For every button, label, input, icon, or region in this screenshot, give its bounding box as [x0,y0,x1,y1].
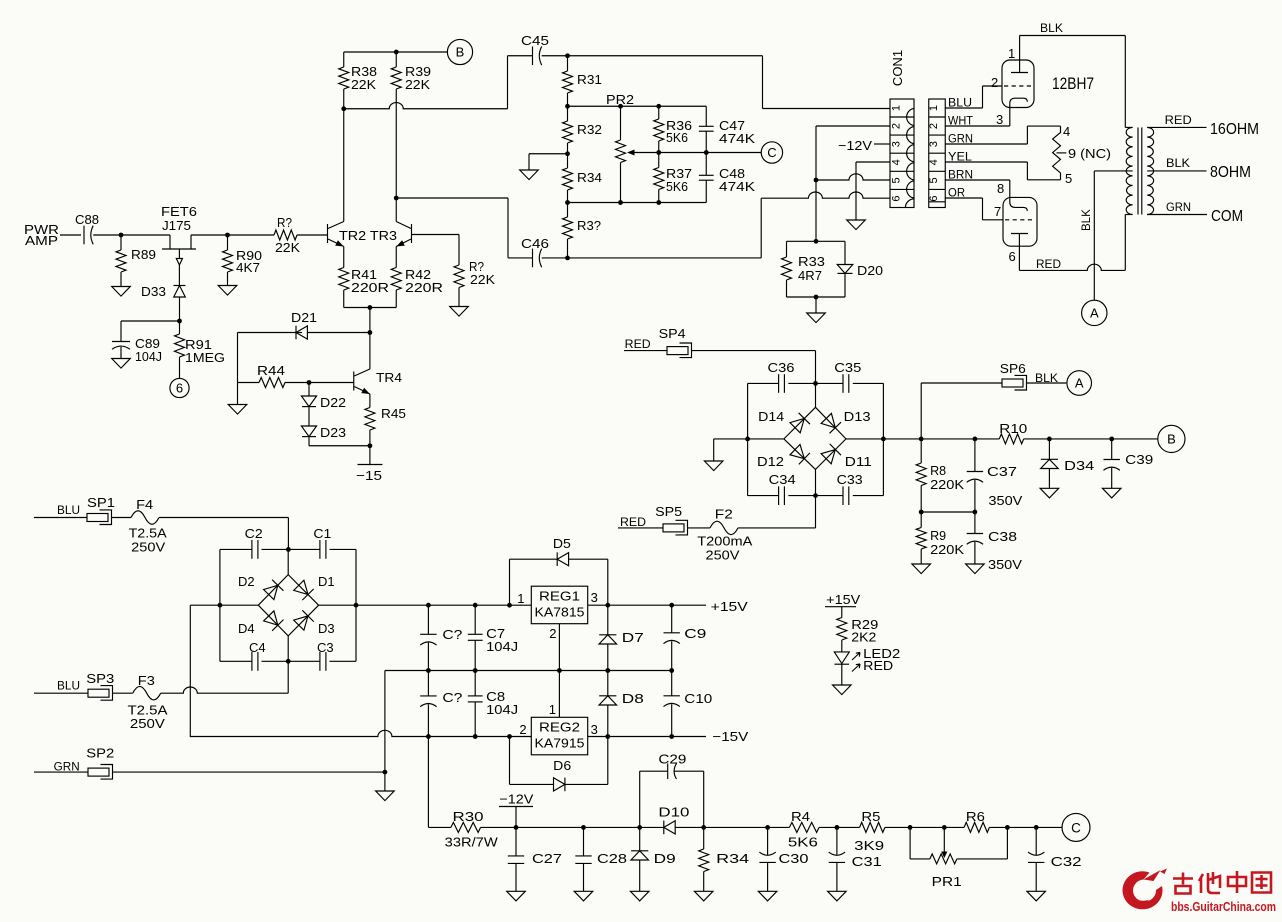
wire [819,826,860,828]
connector CON1 left housing [890,99,914,208]
wire pin5 feed [816,174,890,180]
svg-text:+15V: +15V [826,592,860,607]
wire 8OHM tap BLK [1147,170,1206,172]
wire to ground [714,438,748,440]
fuse F4 T2.5A 250V [112,517,132,519]
connector CON1 right header [929,99,946,208]
wire 16OHM tap RED [1147,126,1206,128]
ground [218,286,237,296]
node junction [565,151,570,156]
wire top rail [542,55,763,57]
transistor TR2 [327,224,329,243]
svg-text:3: 3 [996,112,1003,127]
capacitor C28 [583,827,585,856]
svg-text:5: 5 [891,177,903,183]
wire bridge1 top rail [220,548,252,550]
diode D10 [663,821,665,835]
diode D9 [639,827,641,850]
wire ground rail right [559,670,671,672]
ground [228,405,247,415]
wire bridge1 minus out [190,604,220,606]
svg-text:6: 6 [176,381,183,396]
svg-text:1MEG: 1MEG [185,350,225,365]
svg-text:3K9: 3K9 [854,838,884,853]
svg-text:−12V: −12V [499,792,533,807]
svg-text:22K: 22K [470,272,495,287]
wire R8 R9 junction [921,511,975,513]
wire pin2 riser [816,125,890,127]
diode D20 [844,241,846,264]
svg-text:3: 3 [891,141,903,147]
svg-text:D7: D7 [622,630,644,645]
capacitor C7 104J [474,605,476,634]
ground [507,891,526,901]
transistor TR4 [353,372,355,391]
svg-text:+15V: +15V [711,599,748,614]
resistor R29 2K2 [841,607,843,618]
svg-text:104J: 104J [486,639,518,654]
svg-text:9 (NC): 9 (NC) [1068,146,1111,161]
svg-text:TR4: TR4 [376,370,402,385]
svg-text:A: A [1090,306,1099,321]
svg-text:R?: R? [277,215,292,230]
capacitor C? lower [427,671,429,696]
transistor TR3 [411,224,413,243]
svg-text:SP4: SP4 [659,326,686,341]
wire [237,333,239,405]
svg-text:F3: F3 [138,673,155,688]
ground [694,891,713,901]
svg-text:C34: C34 [769,472,796,487]
svg-text:R9: R9 [930,528,946,543]
svg-text:COM: COM [1211,208,1243,225]
svg-text:D3: D3 [318,621,335,636]
svg-text:SP3: SP3 [86,671,114,686]
node junction [814,239,819,244]
svg-text:8: 8 [997,181,1004,196]
resistor R41 220R [343,247,345,268]
transformer T1 primary winding [1124,36,1126,128]
capacitor C45 [532,46,534,65]
svg-text:C10: C10 [684,691,712,706]
wire divider rail upper [568,105,707,107]
svg-text:12BH7: 12BH7 [1052,75,1094,93]
svg-text:16OHM: 16OHM [1210,121,1259,138]
resistor R5 3K9 [860,822,885,832]
svg-text:−12V: −12V [838,138,872,153]
resistor R? 22K horizontal [274,230,297,240]
resistor R36 5K6 [658,106,660,119]
capacitor C37 350V [974,439,976,472]
svg-text:CON1: CON1 [890,50,905,86]
svg-text:D10: D10 [658,805,689,820]
svg-text:C30: C30 [779,851,809,866]
svg-text:22K: 22K [405,77,430,92]
svg-text:2: 2 [928,123,940,129]
svg-text:R3?: R3? [577,218,601,233]
wire [704,826,790,828]
wire REG1 pin2 to ground rail [558,624,560,718]
wire emitter rail [344,307,397,309]
svg-text:C28: C28 [597,851,627,866]
svg-text:D2: D2 [238,574,255,589]
wire B feed rail [344,103,508,109]
wire bridge box sides [747,383,749,495]
svg-text:1: 1 [549,702,556,717]
svg-text:C2: C2 [245,526,263,541]
svg-text:C46: C46 [521,236,549,251]
wire plus rail to REG1 [356,604,531,606]
capacitor C38 350V [974,512,976,534]
svg-text:R10: R10 [999,421,1027,436]
svg-text:D21: D21 [291,310,317,325]
svg-text:22K: 22K [351,77,376,92]
ground [112,359,131,369]
capacitor C47 474K [705,106,707,126]
resistor R9 220K [920,512,922,528]
svg-text:D33: D33 [141,284,166,299]
svg-text:BLU: BLU [57,681,80,693]
svg-text:BLK: BLK [1166,158,1190,170]
svg-text:C29: C29 [658,752,686,767]
wire TR4 base [309,382,354,384]
resistor R37 5K6 [658,153,660,168]
resistor R45 [369,394,371,408]
svg-text:C1: C1 [313,526,331,541]
capacitor C39 [1111,439,1113,460]
wire C46 feed [396,197,508,199]
rectifier diamond wires [815,383,817,407]
svg-text:3: 3 [928,141,940,147]
svg-text:AMP: AMP [25,233,58,248]
wire TR4 collector [369,333,371,370]
svg-text:C35: C35 [834,360,861,375]
capacitor C89 104J [121,320,180,322]
resistor R8 220K [920,439,922,463]
svg-text:1: 1 [1008,46,1015,61]
svg-text:4: 4 [1063,124,1070,139]
svg-text:bbs.GuitarChina.com: bbs.GuitarChina.com [1171,900,1276,914]
power -15 [369,446,371,465]
wire WHT row [945,125,1010,127]
svg-text:R8: R8 [930,463,946,478]
svg-text:C: C [767,145,776,160]
wire right drop to pin1 [762,56,764,109]
wire [159,517,288,519]
svg-text:350V: 350V [988,557,1022,572]
svg-text:C9: C9 [684,626,706,641]
diode D3 [294,616,308,630]
svg-text:RED: RED [1036,259,1061,271]
resistor R90 4K7 [227,235,229,250]
node A [1067,371,1092,396]
resistor R42 220R [395,247,397,268]
ground [847,220,866,230]
capacitor C31 [836,827,838,855]
wire REG2 output -15V [588,736,706,738]
wire TR3 base [412,234,460,236]
svg-text:A: A [1075,376,1084,391]
ground [574,891,593,901]
svg-text:R45: R45 [381,406,406,421]
svg-text:−15V: −15V [712,729,748,744]
wire R33 box bottom [787,296,846,298]
svg-text:3: 3 [591,722,598,737]
svg-text:RED: RED [620,517,646,529]
wire node B rail top [344,51,448,53]
svg-text:D8: D8 [622,691,644,706]
svg-text:2: 2 [891,123,903,129]
wire -V drop to R30 [427,737,429,828]
ground [704,461,723,471]
svg-text:D34: D34 [1064,458,1094,473]
ground [966,564,985,574]
svg-text:4R7: 4R7 [798,268,822,283]
resistor R3? [567,203,569,218]
diode D4 [264,611,278,625]
svg-text:350V: 350V [988,493,1022,508]
svg-text:33R/7W: 33R/7W [445,835,499,850]
svg-text:R32: R32 [577,122,602,137]
svg-text:R33: R33 [798,254,825,269]
transformer T1 core [1137,127,1139,214]
wire TR2 collector rail [343,109,345,222]
svg-text:GRN: GRN [1166,202,1191,214]
wire rail [309,445,370,447]
diode D1 [294,580,308,594]
wire primary centre tap BLK [1094,170,1132,172]
capacitor C32 [1035,827,1037,855]
svg-text:D14: D14 [758,409,784,424]
resistor R44 [238,382,260,384]
svg-text:−15: −15 [356,468,382,483]
resistor R31 [567,56,569,71]
ground [912,564,931,574]
ground [1102,488,1121,498]
tube 12BH7 upper triode [1002,60,1034,108]
ground [833,685,852,695]
svg-text:250V: 250V [131,540,165,555]
node junction [813,381,818,386]
svg-text:SP2: SP2 [86,746,114,761]
svg-text:D4: D4 [238,621,255,636]
svg-text:7: 7 [994,204,1001,219]
svg-text:J175: J175 [162,218,191,233]
svg-text:B: B [456,45,465,60]
wire [93,234,170,236]
wire bridge1 ac bottom [287,661,289,693]
svg-text:3: 3 [591,590,598,605]
svg-text:C38: C38 [988,529,1017,544]
wire divider rail lower [568,202,707,204]
svg-text:2: 2 [549,626,556,641]
diode D22 [308,383,310,397]
transformer T1 secondary winding [1147,127,1153,214]
resistor R89 [120,235,122,250]
diode D12 [790,445,804,459]
capacitor C8 104J [474,671,476,696]
svg-text:C4: C4 [249,640,266,655]
svg-text:C?: C? [442,690,462,705]
node junction [701,825,706,830]
ground [828,891,847,901]
wire B+ rail [883,438,999,440]
svg-text:8OHM: 8OHM [1210,164,1251,181]
svg-text:D13: D13 [844,409,871,424]
tube 12BH7 lower triode [1003,197,1037,246]
svg-text:474K: 474K [719,179,755,194]
svg-text:R31: R31 [577,72,602,87]
LED LED2 RED [834,652,849,664]
capacitor C? upper [427,605,429,634]
svg-text:C39: C39 [1125,452,1153,467]
capacitor C46 [532,249,534,268]
svg-text:1: 1 [928,105,940,111]
svg-text:220R: 220R [351,280,389,295]
svg-text:F4: F4 [136,497,153,512]
capacitor C29 loop [639,771,641,827]
wire R33 box top [787,240,846,242]
diode D6 loop [509,737,511,785]
node junction [177,319,182,324]
ground [520,170,539,180]
svg-text:R5: R5 [861,809,880,824]
svg-text:KA7815: KA7815 [535,605,585,620]
node junction [565,104,570,109]
ground [1027,891,1046,901]
diode D8 [607,671,609,696]
wire minus rail to regulators [190,730,531,736]
svg-text:2K2: 2K2 [851,630,876,645]
svg-text:KA7915: KA7915 [535,736,585,751]
svg-text:RED: RED [1165,115,1192,127]
regulator REG1 KA7815 [531,586,587,624]
wire with hop [161,687,289,693]
svg-text:RED: RED [625,339,651,351]
svg-text:BLK: BLK [1035,373,1058,385]
svg-text:D9: D9 [654,851,676,866]
node C [1062,813,1090,841]
svg-text:474K: 474K [719,131,755,146]
svg-text:C?: C? [442,627,462,642]
wire COM tap GRN [1147,214,1207,216]
capacitor C48 474K [705,153,707,176]
diode D14 [790,419,804,433]
svg-text:C: C [1071,820,1081,835]
ground [112,287,131,297]
capacitor C30 [767,827,769,855]
ground [384,772,386,791]
svg-text:R6: R6 [966,809,985,824]
wire lower rail to connector riser [542,257,762,259]
svg-text:22K: 22K [275,240,300,255]
node junction D21 [368,330,373,335]
wire PR2 wiper rail [634,152,761,154]
svg-text:BLK: BLK [1040,23,1063,35]
ground [450,307,469,317]
wire [989,826,1062,828]
svg-text:FET6: FET6 [161,204,197,219]
svg-text:220K: 220K [930,542,964,557]
svg-text:250V: 250V [130,716,165,731]
svg-text:R4: R4 [791,809,810,824]
wire -12V dash [874,143,890,145]
resistor R6 [964,822,989,832]
svg-text:BLU: BLU [57,505,80,517]
node B [447,39,472,64]
svg-text:6: 6 [1009,249,1016,264]
wire ground stub [529,153,568,155]
wire bridge1 bottom rail [220,660,252,662]
svg-text:6: 6 [891,195,903,201]
wire [738,527,816,529]
svg-text:D6: D6 [553,758,571,773]
svg-text:REG1: REG1 [539,589,580,604]
svg-text:104J: 104J [135,349,162,364]
wire C45 left leg [507,56,509,109]
wire [191,234,274,236]
svg-text:C27: C27 [532,851,562,866]
capacitor C88 [83,226,85,245]
node junction [565,200,570,205]
ground [630,891,649,901]
svg-text:C32: C32 [1051,854,1082,869]
svg-text:C45: C45 [521,33,549,48]
svg-text:C88: C88 [75,212,99,227]
svg-text:D1: D1 [318,574,335,589]
svg-text:4K7: 4K7 [236,260,260,275]
node 6 terminal [170,378,189,397]
wire bridge1 box sides [219,549,221,661]
svg-text:R34: R34 [716,851,749,866]
svg-text:BLK: BLK [1081,209,1093,231]
svg-text:5: 5 [1065,171,1072,186]
ground [807,313,826,323]
svg-text:5K6: 5K6 [666,130,688,145]
svg-text:SP6: SP6 [1000,361,1026,376]
resistor R? 22K right [458,235,460,266]
wire bottom rail [481,826,664,828]
resistor R34 [567,154,569,168]
svg-text:104J: 104J [486,702,518,717]
svg-text:D12: D12 [757,454,784,469]
svg-text:4: 4 [891,159,903,165]
svg-text:5: 5 [928,177,940,183]
svg-text:D11: D11 [845,454,872,469]
node A centre tap [1082,300,1107,325]
svg-text:SP1: SP1 [87,495,115,510]
diode D23 [308,407,310,426]
svg-text:B: B [1167,432,1176,447]
svg-text:RED: RED [863,658,893,673]
wire RED plate lead [1019,264,1125,270]
potentiometer PR1 [909,827,911,859]
svg-text:R34: R34 [577,170,602,185]
diode D13 [821,413,835,427]
regulator REG2 KA7915 [531,717,587,755]
svg-text:C33: C33 [837,472,863,487]
fuse F3 T2.5A 250V [113,692,133,694]
resistor R4 5K6 [789,822,819,832]
resistor R34 shunt [703,827,705,849]
svg-text:5K6: 5K6 [788,835,818,850]
resistor R10 [999,434,1023,444]
wire bridge bottom rail [748,495,779,497]
svg-text:TR2 TR3: TR2 TR3 [339,228,397,243]
svg-text:T200mA: T200mA [697,534,752,549]
diode D7 [607,605,609,635]
resistor R39 22K [395,52,397,67]
